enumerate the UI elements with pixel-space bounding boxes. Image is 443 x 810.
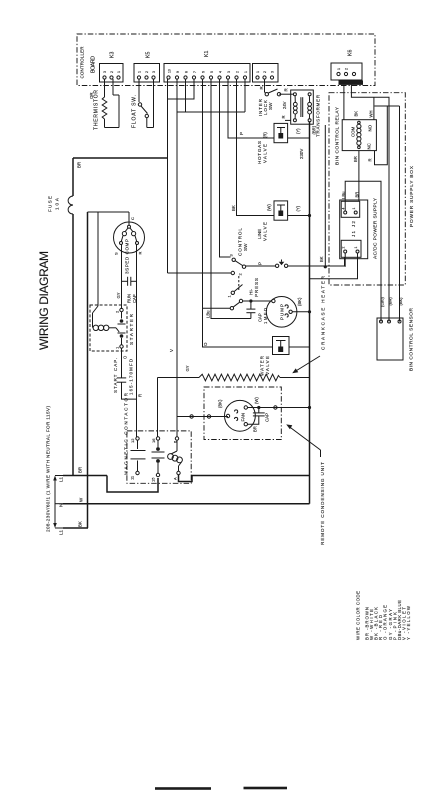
svg-text:REMOTE CONDENSING UNIT: REMOTE CONDENSING UNIT bbox=[320, 462, 325, 545]
svg-text:3: 3 bbox=[152, 71, 156, 73]
svg-text:5: 5 bbox=[210, 71, 214, 73]
svg-text:3: 3 bbox=[271, 71, 275, 73]
connector K6 bbox=[331, 63, 362, 80]
wire color code legend bbox=[356, 591, 411, 640]
svg-text:(W): (W) bbox=[267, 204, 272, 211]
svg-text:1: 1 bbox=[117, 71, 121, 73]
wire BK from pin2 to line valve bbox=[237, 79, 275, 216]
remote condensing unit dashed box bbox=[204, 387, 281, 440]
svg-text:(W): (W) bbox=[254, 397, 259, 404]
svg-text:HI-: HI- bbox=[249, 288, 254, 295]
svg-text:PUMP: PUMP bbox=[280, 304, 285, 320]
wire starter pin1 down bbox=[121, 349, 123, 378]
wire water valve to bus bbox=[289, 346, 310, 348]
wire WH drop bbox=[373, 97, 375, 120]
svg-text:2: 2 bbox=[235, 71, 239, 73]
svg-text:2: 2 bbox=[238, 273, 243, 276]
wire V from K1 pin9 to fan bbox=[176, 79, 178, 417]
wire starter feed riser bbox=[97, 212, 99, 306]
svg-text:1: 1 bbox=[256, 71, 260, 73]
svg-text:SW: SW bbox=[268, 102, 273, 110]
svg-text:(R): (R) bbox=[263, 132, 268, 138]
wire fan feed with plug bbox=[177, 415, 228, 437]
svg-text:Y -YELLOW: Y -YELLOW bbox=[406, 605, 411, 640]
wire K1 pin10 to BR bus bbox=[167, 79, 169, 273]
wire BK sensor drop bbox=[399, 106, 401, 322]
line valve solenoid bbox=[274, 201, 288, 220]
svg-text:(Y): (Y) bbox=[296, 128, 301, 134]
svg-text:O: O bbox=[123, 355, 128, 359]
page mark bar right bbox=[244, 787, 288, 790]
svg-text:WIRE COLOR CODE: WIRE COLOR CODE bbox=[356, 591, 361, 640]
svg-text:GY: GY bbox=[116, 292, 121, 298]
svg-text:COM: COM bbox=[351, 126, 356, 137]
svg-text:NC: NC bbox=[367, 143, 372, 149]
compressor motor circle bbox=[114, 212, 145, 253]
plug connector on P wire bbox=[275, 260, 287, 268]
control switch bbox=[168, 258, 246, 294]
power supply box dashed enclosure bbox=[329, 93, 405, 285]
svg-text:O: O bbox=[203, 342, 208, 346]
wire relay NO loop bbox=[375, 106, 388, 165]
svg-text:1: 1 bbox=[244, 71, 248, 73]
hi pressure switch bbox=[203, 299, 272, 310]
float switch bbox=[138, 79, 153, 128]
svg-text:VALVE: VALVE bbox=[263, 222, 268, 241]
svg-text:HOTGAS: HOTGAS bbox=[257, 141, 262, 164]
start capacitor bbox=[117, 378, 137, 399]
wire J1 pin2 down-left bbox=[344, 253, 346, 267]
svg-text:1: 1 bbox=[352, 208, 356, 210]
wire jog pin7 bbox=[168, 79, 195, 99]
svg-text:START CAP.: START CAP. bbox=[113, 358, 118, 393]
connector K2 bbox=[253, 64, 279, 83]
wire pin4 to control switch bbox=[220, 79, 231, 257]
svg-text:(Y): (Y) bbox=[296, 205, 301, 211]
svg-text:CONTROL: CONTROL bbox=[238, 228, 243, 256]
svg-text:J1 J2: J1 J2 bbox=[351, 221, 356, 237]
svg-text:FLOAT SW.: FLOAT SW. bbox=[132, 95, 138, 128]
svg-text:8: 8 bbox=[184, 71, 188, 73]
contactor main contact 16-15 bbox=[152, 437, 165, 477]
wire P from pin3 to hotgas valve bbox=[228, 79, 274, 138]
svg-text:R: R bbox=[138, 252, 143, 255]
svg-text:GY: GY bbox=[185, 365, 190, 371]
svg-text:R: R bbox=[281, 115, 286, 118]
svg-text:12: 12 bbox=[130, 438, 135, 443]
svg-text:7: 7 bbox=[193, 71, 197, 73]
wire hotgas to bus bbox=[288, 137, 310, 139]
svg-text:K6: K6 bbox=[348, 50, 354, 56]
svg-text:S: S bbox=[114, 252, 119, 255]
dimension arrow between L1 and L1 bbox=[53, 476, 63, 529]
svg-text:3: 3 bbox=[227, 71, 231, 73]
svg-text:10A: 10A bbox=[55, 197, 60, 210]
connector K3 bbox=[100, 64, 124, 83]
svg-text:BK: BK bbox=[231, 205, 236, 211]
pump motor circle bbox=[266, 297, 297, 328]
svg-text:9: 9 bbox=[176, 71, 180, 73]
svg-text:4: 4 bbox=[218, 71, 222, 73]
svg-text:1: 1 bbox=[138, 71, 142, 73]
wire K6 to sensor BR bbox=[351, 85, 389, 322]
wire N white line bbox=[63, 503, 310, 505]
svg-text:W: W bbox=[79, 497, 84, 502]
wire cross link bbox=[177, 111, 245, 113]
svg-text:3: 3 bbox=[103, 71, 107, 73]
pump capacitor bbox=[246, 301, 255, 319]
svg-text:WH: WH bbox=[369, 111, 374, 118]
svg-text:(BR): (BR) bbox=[311, 125, 316, 134]
wire compressor top link bbox=[88, 211, 130, 213]
svg-text:BR: BR bbox=[353, 156, 358, 162]
svg-text:RUN: RUN bbox=[127, 294, 132, 303]
wire line valve to bus bbox=[288, 215, 310, 217]
svg-text:K3: K3 bbox=[110, 52, 116, 58]
svg-text:1: 1 bbox=[354, 247, 358, 249]
svg-text:(BR): (BR) bbox=[388, 297, 393, 306]
svg-text:3SPED COMP: 3SPED COMP bbox=[125, 239, 130, 274]
interlock switch wiring bbox=[265, 79, 294, 96]
svg-text:BOARD: BOARD bbox=[91, 56, 97, 73]
svg-text:2: 2 bbox=[342, 247, 346, 249]
wire BK branch bbox=[324, 125, 326, 267]
svg-text:2: 2 bbox=[263, 71, 267, 73]
svg-text:BR: BR bbox=[253, 426, 258, 432]
svg-text:BK: BK bbox=[354, 111, 359, 117]
wire K6 to relay bbox=[343, 85, 345, 120]
svg-text:P: P bbox=[258, 262, 263, 265]
wire pump to right bus bbox=[292, 311, 309, 313]
wire P to J1 pin2 bbox=[288, 257, 345, 266]
bin control sensor bbox=[377, 318, 403, 360]
svg-text:2: 2 bbox=[145, 71, 149, 73]
svg-text:3: 3 bbox=[229, 254, 234, 257]
crankcase heater element bbox=[158, 374, 310, 437]
wire pin1 jog bbox=[244, 79, 246, 112]
wire coil A elbow to BR run bbox=[179, 475, 310, 482]
svg-text:2: 2 bbox=[345, 68, 349, 70]
starter internals bbox=[93, 306, 126, 348]
svg-text:BK: BK bbox=[78, 521, 83, 527]
svg-text:CAP: CAP bbox=[258, 313, 263, 322]
thermistor bbox=[102, 79, 119, 128]
svg-text:VALVE: VALVE bbox=[265, 356, 270, 375]
fuse F1 bbox=[68, 158, 73, 476]
svg-text:230V: 230V bbox=[299, 149, 304, 159]
svg-text:CRANKCASE HEATER: CRANKCASE HEATER bbox=[321, 275, 326, 350]
svg-text:FAN: FAN bbox=[241, 413, 246, 422]
svg-text:CAP: CAP bbox=[265, 413, 270, 422]
connector K1 bbox=[164, 64, 250, 83]
svg-text:O -ORANGE: O -ORANGE bbox=[383, 605, 388, 640]
svg-text:1: 1 bbox=[337, 68, 341, 70]
svg-text:11: 11 bbox=[130, 475, 135, 480]
svg-text:BR: BR bbox=[355, 192, 360, 198]
wire S leg bbox=[121, 245, 123, 310]
svg-text:V: V bbox=[169, 349, 174, 352]
svg-text:6: 6 bbox=[201, 71, 205, 73]
svg-text:MAGNETIC CONTACTOR: MAGNETIC CONTACTOR bbox=[124, 392, 129, 475]
svg-text:24V: 24V bbox=[282, 101, 287, 109]
svg-text:N: N bbox=[59, 504, 64, 507]
K6 cable solid bar bbox=[339, 81, 364, 85]
svg-text:WIRING DIAGRAM: WIRING DIAGRAM bbox=[37, 251, 51, 350]
svg-text:NO: NO bbox=[368, 124, 373, 131]
svg-text:BR: BR bbox=[78, 467, 83, 473]
run capacitor bbox=[122, 277, 137, 286]
svg-text:CONTROLLER: CONTROLLER bbox=[80, 46, 85, 79]
svg-text:FUSE: FUSE bbox=[48, 196, 53, 212]
svg-text:(BK): (BK) bbox=[398, 297, 403, 306]
AC/DC power supply unit bbox=[340, 200, 368, 259]
wire relay BR to J2 bbox=[358, 151, 360, 202]
svg-text:1: 1 bbox=[115, 346, 120, 349]
svg-text:(LBu): (LBu) bbox=[380, 297, 385, 307]
magnetic contactor dashed box bbox=[127, 431, 191, 483]
svg-text:2: 2 bbox=[110, 71, 114, 73]
svg-text:R: R bbox=[368, 158, 373, 161]
svg-text:A: A bbox=[173, 477, 178, 480]
wire O from pin6 to water valve bbox=[203, 79, 273, 347]
svg-text:VALVE: VALVE bbox=[263, 144, 268, 163]
svg-text:PRESS: PRESS bbox=[254, 278, 259, 297]
svg-text:K5: K5 bbox=[146, 52, 152, 58]
svg-text:(BK): (BK) bbox=[218, 399, 223, 408]
wire 230V right bus bbox=[309, 122, 311, 504]
controller board dashed enclosure bbox=[77, 34, 375, 86]
svg-text:POWER SUPPLY BOX: POWER SUPPLY BOX bbox=[409, 165, 415, 227]
svg-text:STARTER: STARTER bbox=[129, 313, 134, 345]
page mark bar left bbox=[155, 787, 211, 790]
svg-text:BIN CONTROL SENSOR: BIN CONTROL SENSOR bbox=[409, 307, 415, 371]
transformer T1 bbox=[285, 90, 313, 124]
svg-text:L1: L1 bbox=[59, 476, 64, 482]
bin control relay bbox=[342, 120, 376, 151]
svg-text:L1: L1 bbox=[59, 529, 64, 535]
svg-text:R: R bbox=[284, 88, 289, 91]
svg-text:BK: BK bbox=[319, 256, 324, 262]
svg-text:R: R bbox=[138, 394, 143, 397]
svg-text:K1: K1 bbox=[204, 51, 210, 57]
wire J2 pin4 to sensor LBu bbox=[345, 181, 381, 321]
svg-text:2: 2 bbox=[115, 310, 120, 313]
wire P control sw output bbox=[246, 265, 276, 267]
svg-text:208-230V/60/1 (1 WIRE WITH NEU: 208-230V/60/1 (1 WIRE WITH NEUTRAL FOR 1… bbox=[46, 406, 51, 532]
svg-text:R: R bbox=[259, 86, 264, 89]
svg-text:(BK): (BK) bbox=[297, 297, 302, 306]
svg-text:10: 10 bbox=[167, 69, 171, 73]
hotgas valve solenoid bbox=[274, 123, 288, 142]
contactor coil bbox=[168, 437, 183, 475]
wire L1 BK line bbox=[63, 527, 88, 529]
connector K5 bbox=[134, 64, 160, 83]
wire L1 step to contactor 15 bbox=[107, 476, 158, 493]
svg-text:165-170MFD: 165-170MFD bbox=[129, 359, 134, 395]
wire LBu from pin5 to pump cap bbox=[211, 79, 251, 319]
svg-text:1: 1 bbox=[227, 295, 232, 298]
svg-text:AC/DC POWER SUPPLY: AC/DC POWER SUPPLY bbox=[373, 197, 379, 259]
svg-text:THERMISTOR: THERMISTOR bbox=[94, 90, 100, 130]
svg-text:LBu: LBu bbox=[206, 310, 211, 318]
svg-text:C: C bbox=[130, 217, 135, 220]
fan capacitor bbox=[248, 408, 265, 425]
wire BR bus from controller to fuse bbox=[73, 157, 168, 159]
wire pin8 stub bbox=[185, 79, 187, 112]
svg-text:15: 15 bbox=[151, 477, 156, 482]
svg-text:16: 16 bbox=[151, 438, 156, 443]
svg-text:BIN CONTROL RELAY: BIN CONTROL RELAY bbox=[335, 106, 341, 165]
wire BK riser to compressor common bbox=[87, 212, 89, 528]
svg-text:WATER: WATER bbox=[260, 355, 265, 376]
svg-text:BR: BR bbox=[77, 162, 82, 168]
svg-text:SW: SW bbox=[243, 243, 248, 251]
svg-text:P: P bbox=[239, 132, 244, 135]
wire L1 BR line bbox=[63, 475, 107, 477]
contactor main contact 12-11 bbox=[131, 437, 146, 475]
wire R leg to contactor bbox=[136, 245, 138, 438]
wire J1 pin1 to bus bbox=[310, 253, 358, 279]
starter relay dashed box bbox=[90, 305, 127, 351]
water valve solenoid bbox=[273, 337, 290, 355]
wire fan top to bus bbox=[248, 406, 312, 409]
fan motor circle bbox=[225, 400, 256, 431]
svg-text:LINE: LINE bbox=[257, 229, 262, 239]
